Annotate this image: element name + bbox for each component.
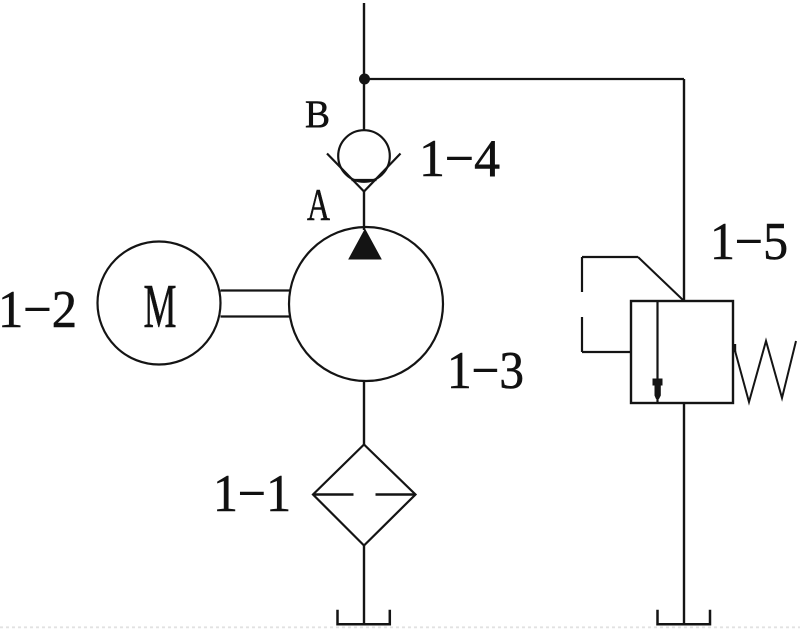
svg-text:1−4: 1−4 [419, 130, 500, 188]
check valve 1-4 seat chord [352, 179, 377, 181]
svg-text:A: A [307, 180, 330, 230]
spring attach mark [733, 344, 737, 352]
check valve 1-4 seat V right arm [364, 154, 401, 192]
check valve 1-4 seat V left arm [327, 154, 364, 192]
tank left symbol [338, 610, 390, 625]
pilot line bottom horizontal [582, 351, 631, 353]
shaft coupling bottom line [221, 315, 291, 317]
pump 1-3 flow triangle [349, 230, 381, 260]
wire right vertical down to relief valve [683, 79, 685, 301]
relief valve 1-5 internal arrowhead [653, 379, 663, 400]
svg-text:M: M [144, 273, 177, 341]
tank right symbol [658, 610, 711, 625]
wire filter to tank [363, 546, 365, 625]
pilot line top horizontal [582, 256, 638, 258]
wire top horizontal to relief valve [364, 78, 684, 80]
svg-text:1−2: 1−2 [0, 281, 77, 339]
motor 1-2 circle [98, 242, 221, 365]
scan border line bottom [0, 626, 800, 628]
svg-text:1−1: 1−1 [213, 465, 291, 523]
filter 1-1 dashed element left dash [313, 493, 354, 495]
shaft coupling top line [221, 289, 291, 291]
node junction dot [359, 74, 370, 85]
pump 1-3 circle [289, 227, 443, 381]
svg-text:B: B [305, 93, 330, 136]
relief valve 1-5 internal flow line [656, 301, 658, 403]
wire pump to filter [363, 381, 365, 445]
relief valve 1-5 body [631, 301, 733, 403]
wire top supply [363, 3, 365, 131]
pilot line left vertical dashed [581, 257, 583, 292]
filter 1-1 diamond [313, 445, 416, 546]
wire relief valve to tank [683, 403, 685, 624]
check valve 1-4 ball [338, 130, 390, 182]
pilot line diagonal [638, 257, 683, 300]
wire check valve to pump [363, 192, 365, 231]
svg-text:1−5: 1−5 [710, 213, 788, 271]
svg-text:1−3: 1−3 [447, 342, 524, 400]
relief valve spring [734, 341, 796, 402]
filter 1-1 dashed element right dash [376, 493, 416, 495]
